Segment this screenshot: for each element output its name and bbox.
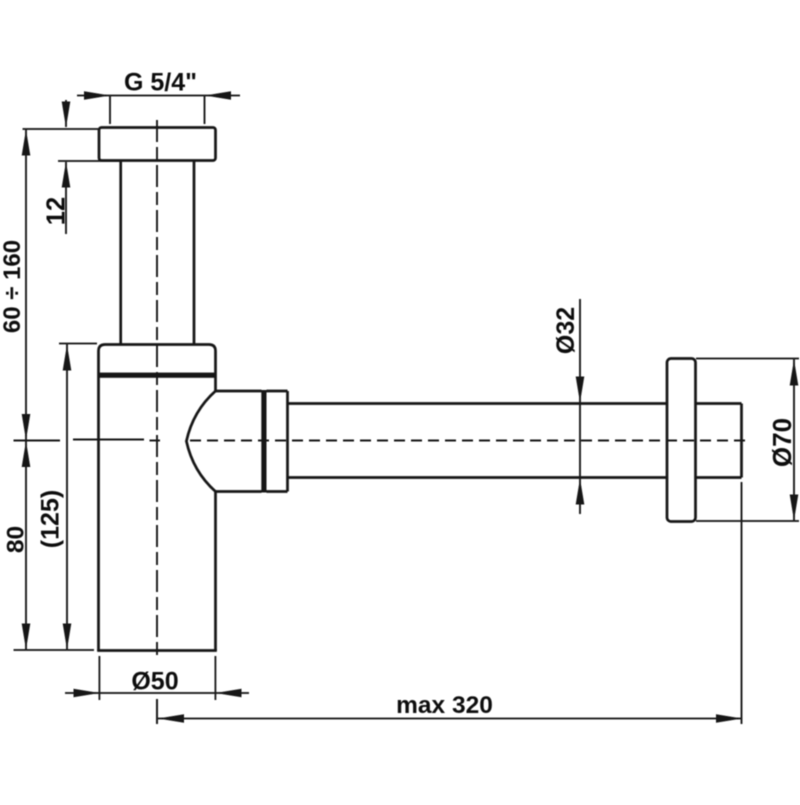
- union joint thick line: [261, 390, 266, 493]
- vertical centerline: [156, 120, 158, 724]
- svg-text:Ø50: Ø50: [131, 668, 178, 696]
- dimension 80: [22, 441, 31, 650]
- outlet horn elbow: [186, 391, 261, 492]
- top flange nut G5/4: [99, 128, 216, 161]
- gasket band: [99, 373, 216, 378]
- dimension G 5/4": [77, 96, 240, 125]
- dimension Ø32: [579, 299, 581, 514]
- svg-text:Ø32: Ø32: [552, 307, 580, 354]
- svg-text:Ø70: Ø70: [767, 418, 797, 467]
- wall escutcheon flange: [667, 359, 696, 522]
- svg-text:G 5/4": G 5/4": [124, 69, 197, 97]
- trap body cup: [97, 345, 217, 652]
- wall pipe stub: [696, 404, 742, 478]
- dimension 12: [23, 100, 121, 234]
- vertical inlet pipe: [121, 161, 194, 345]
- horizontal centerline: [14, 440, 750, 441]
- horizontal outlet pipe: [288, 404, 668, 478]
- svg-text:max 320: max 320: [396, 692, 493, 719]
- svg-text:(125): (125): [37, 490, 65, 548]
- svg-text:12: 12: [43, 197, 71, 225]
- dimension 60 ÷ 160: [25, 129, 27, 650]
- svg-text:80: 80: [3, 526, 30, 553]
- dimension Ø50: [65, 656, 249, 700]
- dimension max 320: [158, 482, 742, 724]
- dimension Ø70: [696, 359, 799, 522]
- union nut: [267, 391, 288, 492]
- svg-text:60 ÷ 160: 60 ÷ 160: [0, 240, 26, 333]
- dimension (125): [14, 344, 98, 651]
